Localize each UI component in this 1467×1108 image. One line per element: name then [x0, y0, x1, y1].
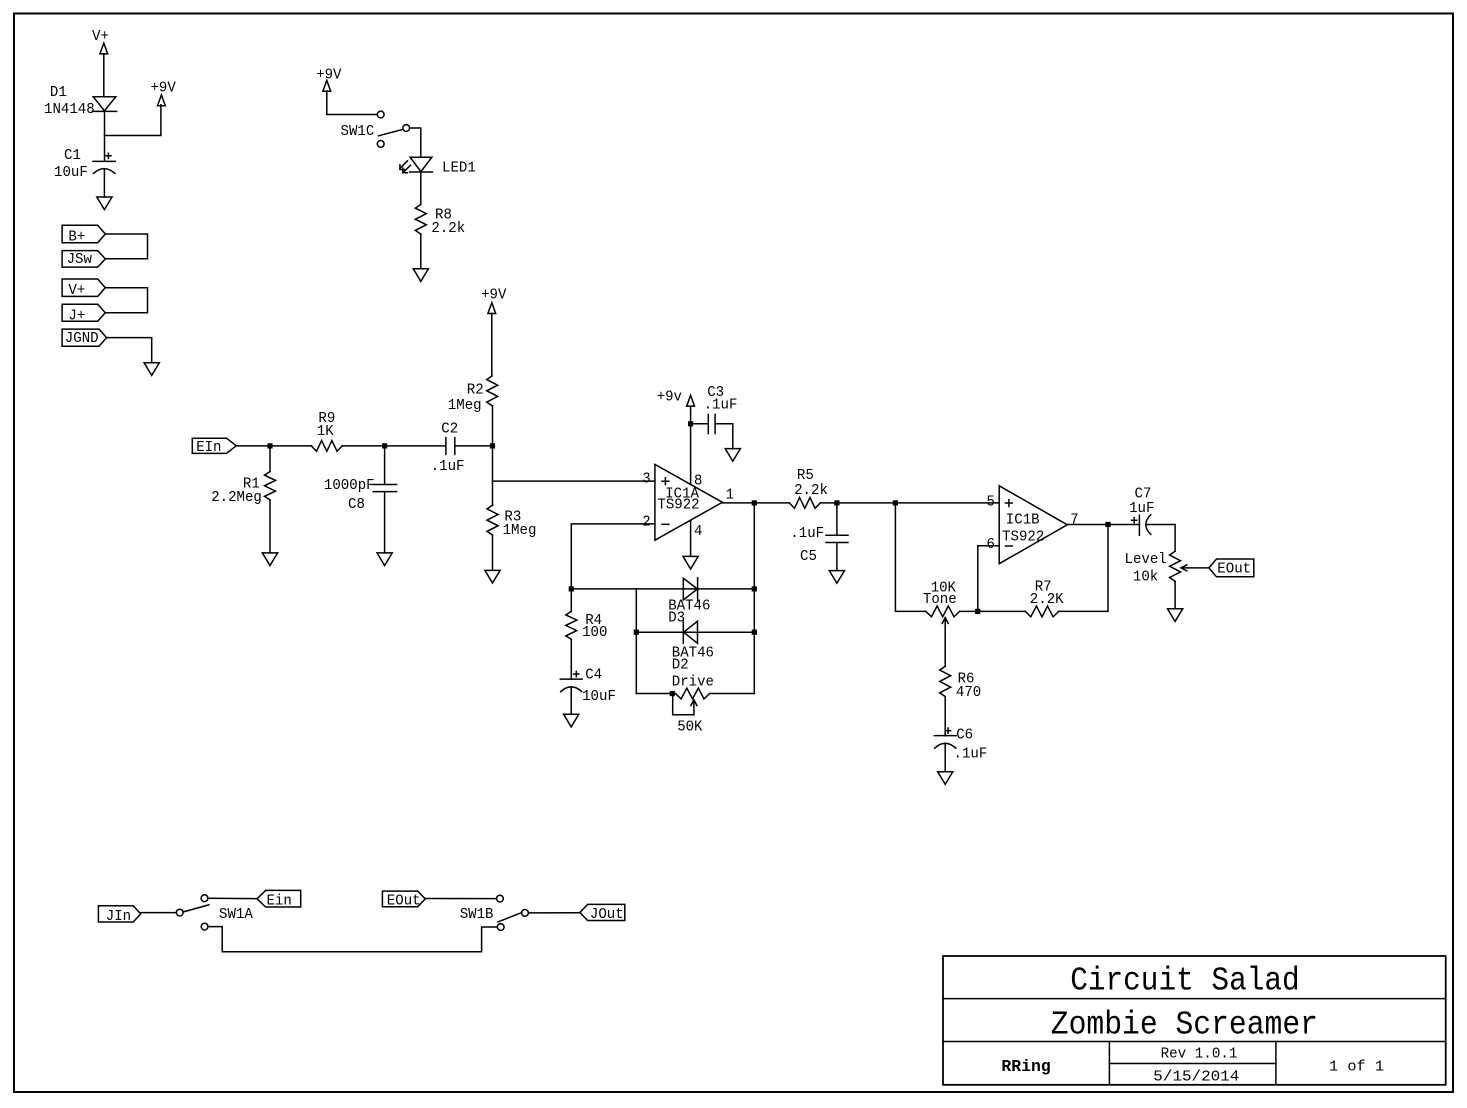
- svg-text:+9V: +9V: [481, 288, 507, 304]
- svg-text:1000pF: 1000pF: [324, 478, 375, 494]
- svg-text:TS922: TS922: [1002, 530, 1044, 546]
- svg-text:B+: B+: [68, 229, 85, 245]
- wire: [570, 687, 572, 714]
- svg-text:5: 5: [987, 494, 995, 510]
- wire: [420, 234, 422, 269]
- ground: [683, 556, 698, 569]
- svg-text:C2: C2: [441, 422, 458, 438]
- potentiometer Drive 50K: [636, 693, 675, 695]
- svg-text:C6: C6: [956, 728, 973, 744]
- ground: [97, 197, 112, 210]
- wire: [384, 446, 386, 485]
- svg-text:10uF: 10uF: [54, 165, 88, 181]
- node +9V power arrow: [151, 80, 177, 105]
- LED LED1: [400, 157, 476, 176]
- wire: [104, 111, 106, 161]
- ground: [413, 269, 428, 282]
- svg-text:LED1: LED1: [442, 161, 476, 177]
- svg-text:TS922: TS922: [657, 498, 699, 514]
- ground: [938, 772, 953, 785]
- potentiometer Level 10k: [1125, 551, 1210, 585]
- ground: [144, 363, 159, 376]
- wire: [715, 424, 733, 449]
- wire: [722, 502, 789, 504]
- svg-text:Tone: Tone: [923, 592, 957, 608]
- ground: [1168, 609, 1183, 622]
- svg-text:3: 3: [642, 472, 650, 488]
- capacitor C5 .1uF: [790, 526, 848, 565]
- switch SW1B: [460, 895, 529, 930]
- wire: [691, 423, 709, 425]
- wire: [960, 610, 1026, 612]
- svg-text:JOut: JOut: [590, 907, 624, 923]
- resistor R4 100: [570, 589, 572, 612]
- node B+ flag: [62, 225, 105, 245]
- svg-text:V+: V+: [92, 29, 109, 45]
- resistor R6 470: [940, 666, 982, 701]
- node junction: [975, 609, 980, 614]
- resistor R5 2.2k: [789, 468, 828, 508]
- capacitor C8 1000pF: [324, 478, 397, 513]
- wire: [420, 172, 422, 204]
- node JIn flag: [98, 906, 140, 925]
- svg-text:SW1C: SW1C: [341, 124, 375, 140]
- wire: [1067, 524, 1139, 526]
- ground: [485, 570, 500, 583]
- svg-text:Rev 1.0.1: Rev 1.0.1: [1161, 1047, 1238, 1063]
- svg-text:JIn: JIn: [106, 909, 131, 925]
- svg-text:R5: R5: [797, 468, 814, 484]
- svg-text:470: 470: [956, 685, 981, 701]
- wire: [141, 912, 177, 914]
- node J+ flag: [62, 304, 105, 324]
- svg-text:Drive: Drive: [672, 674, 714, 690]
- svg-text:D1: D1: [50, 85, 67, 101]
- svg-text:.1uF: .1uF: [431, 459, 465, 475]
- node EOut flag: [1209, 559, 1254, 578]
- title block frame: [943, 956, 1446, 1085]
- wire: [208, 927, 497, 952]
- svg-text:100: 100: [582, 625, 607, 641]
- wire: [710, 693, 755, 695]
- svg-text:.1uF: .1uF: [954, 747, 988, 763]
- node JOut flag: [580, 904, 625, 923]
- svg-text:R2: R2: [467, 383, 484, 399]
- svg-text:C7: C7: [1135, 487, 1152, 503]
- svg-text:D2: D2: [672, 658, 689, 674]
- svg-text:7: 7: [1070, 513, 1078, 529]
- wire: [1174, 581, 1176, 609]
- svg-text:RRing: RRing: [1001, 1058, 1050, 1077]
- ground: [829, 571, 844, 584]
- node junction: [382, 443, 387, 448]
- node V+ flag: [62, 279, 105, 299]
- svg-text:+9v: +9v: [657, 390, 683, 406]
- svg-text:2.2k: 2.2k: [794, 483, 828, 499]
- wire: [570, 639, 572, 679]
- wire: [491, 313, 493, 376]
- svg-text:SW1A: SW1A: [219, 907, 253, 923]
- wire: [493, 480, 655, 482]
- wire: [342, 445, 446, 447]
- svg-text:Zombie Screamer: Zombie Screamer: [1051, 1007, 1318, 1044]
- svg-text:Circuit Salad: Circuit Salad: [1070, 963, 1300, 1000]
- wire: [455, 445, 493, 447]
- ground: [262, 553, 277, 566]
- resistor R2 1Meg: [448, 376, 498, 414]
- capacitor C7 1uF: [1129, 487, 1154, 536]
- wire: [492, 535, 494, 570]
- ground: [564, 714, 579, 727]
- wire: [944, 697, 946, 736]
- svg-text:C1: C1: [64, 148, 81, 164]
- wire: [327, 91, 377, 115]
- svg-text:JSw: JSw: [67, 252, 93, 268]
- wire: [635, 589, 637, 694]
- svg-text:10uF: 10uF: [582, 689, 616, 705]
- capacitor C4 10uF: [560, 668, 616, 705]
- svg-text:+9V: +9V: [151, 80, 177, 96]
- node junction: [752, 500, 757, 505]
- svg-text:1uF: 1uF: [1129, 501, 1154, 517]
- svg-text:6: 6: [987, 537, 995, 553]
- resistor R9 1K: [311, 411, 342, 452]
- wire: [269, 500, 271, 553]
- wire: [1059, 525, 1108, 612]
- diode D1 1N4148: [44, 85, 117, 118]
- op-amp U2 IC1B TS922: [999, 486, 1067, 564]
- svg-text:1N4148: 1N4148: [44, 102, 95, 118]
- resistor R8 2.2k: [415, 204, 465, 237]
- wire: [103, 169, 105, 197]
- svg-text:C8: C8: [348, 497, 365, 513]
- wire: [895, 503, 925, 612]
- svg-text:50K: 50K: [677, 720, 703, 736]
- node junction: [634, 630, 639, 635]
- switch SW1A: [176, 895, 253, 930]
- wire: [236, 445, 311, 447]
- node junction: [490, 443, 495, 448]
- svg-text:2.2Meg: 2.2Meg: [211, 490, 262, 506]
- svg-text:EOut: EOut: [1217, 562, 1251, 578]
- node EIn flag: [192, 438, 236, 456]
- wire: [836, 543, 838, 571]
- wire: [820, 502, 999, 504]
- diode D2 BAT46: [672, 621, 714, 673]
- svg-text:EOut: EOut: [387, 893, 421, 909]
- resistor R1 2.2Meg: [211, 472, 275, 506]
- svg-text:2: 2: [642, 515, 650, 531]
- wire: [690, 406, 692, 484]
- svg-text:1 of 1: 1 of 1: [1329, 1059, 1384, 1076]
- svg-text:2.2K: 2.2K: [1030, 592, 1064, 608]
- svg-text:.1uF: .1uF: [704, 398, 738, 414]
- svg-text:SW1B: SW1B: [460, 907, 494, 923]
- resistor R3 1Meg: [487, 505, 536, 539]
- wire: [944, 744, 946, 772]
- svg-text:.1uF: .1uF: [790, 526, 824, 542]
- ground: [377, 553, 392, 566]
- wire: [208, 897, 257, 900]
- wire: [978, 546, 999, 612]
- svg-text:1K: 1K: [317, 424, 334, 440]
- wire: [105, 234, 147, 259]
- wire: [105, 105, 161, 136]
- node junction: [752, 586, 757, 591]
- svg-text:Level: Level: [1125, 552, 1167, 568]
- potentiometer Tone 10K: [923, 581, 960, 667]
- wire: [107, 338, 152, 363]
- svg-text:JGND: JGND: [65, 331, 99, 347]
- wire: [571, 588, 754, 590]
- svg-text:5/15/2014: 5/15/2014: [1153, 1070, 1239, 1086]
- resistor R7 2.2K: [1025, 580, 1064, 617]
- node junction: [267, 443, 272, 448]
- svg-text:2.2k: 2.2k: [431, 221, 465, 237]
- svg-text:1Meg: 1Meg: [448, 398, 482, 414]
- node junction: [688, 421, 693, 426]
- capacitor C6 .1uF: [934, 728, 987, 763]
- ground: [725, 449, 740, 462]
- wire: [690, 520, 692, 556]
- svg-text:1Meg: 1Meg: [503, 523, 537, 539]
- capacitor C1 10uF: [54, 148, 115, 181]
- node junction: [834, 500, 839, 505]
- capacitor C2 .1uF: [431, 422, 465, 476]
- wire: [425, 898, 496, 900]
- wire: [492, 406, 494, 505]
- svg-text:10k: 10k: [1133, 570, 1159, 586]
- svg-text:J+: J+: [68, 308, 85, 324]
- wire: [269, 446, 271, 472]
- node junction: [752, 630, 757, 635]
- node JSw flag: [62, 251, 105, 269]
- wire: [571, 524, 655, 589]
- svg-text:1: 1: [726, 488, 735, 504]
- wire: [636, 631, 754, 633]
- wire: [836, 503, 838, 535]
- node junction: [569, 586, 574, 591]
- svg-text:8: 8: [694, 473, 702, 489]
- wire: [384, 492, 386, 553]
- svg-text:C5: C5: [800, 549, 817, 565]
- svg-text:V+: V+: [68, 283, 85, 299]
- svg-text:C4: C4: [585, 668, 602, 684]
- node junction: [893, 500, 898, 505]
- node Ein flag: [257, 890, 301, 909]
- svg-text:4: 4: [694, 524, 703, 540]
- wire: [1147, 525, 1175, 552]
- node EOut flag: [382, 891, 425, 909]
- svg-text:Ein: Ein: [267, 894, 292, 910]
- node JGND flag: [62, 329, 107, 347]
- svg-text:+9V: +9V: [316, 67, 342, 83]
- op-amp U1 IC1A TS922: [655, 464, 723, 540]
- switch SW1C: [341, 111, 410, 147]
- node +9V power arrow: [481, 288, 507, 314]
- wire: [103, 54, 105, 97]
- svg-text:EIn: EIn: [196, 440, 221, 456]
- svg-text:IC1B: IC1B: [1006, 513, 1040, 529]
- node +9V power arrow: [316, 67, 342, 91]
- capacitor C3 .1uF: [704, 385, 738, 434]
- node V+ power arrow: [92, 29, 109, 54]
- wire: [528, 912, 580, 914]
- node junction: [670, 691, 675, 696]
- diode D3 BAT46: [668, 578, 710, 627]
- node junction: [1105, 522, 1110, 527]
- node +9v power arrow: [657, 390, 695, 406]
- wire: [410, 128, 421, 157]
- wire: [753, 503, 755, 694]
- wire: [105, 288, 147, 313]
